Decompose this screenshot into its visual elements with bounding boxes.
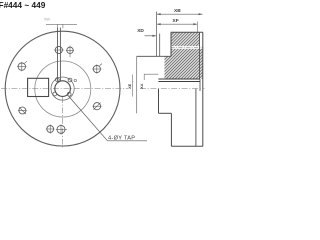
boss left face lower: [158, 89, 160, 114]
bolt hole B: [66, 46, 74, 57]
XF dimension line: [157, 23, 198, 25]
tap hole SW: [53, 92, 57, 96]
section hatch pilot block: [200, 47, 203, 79]
XD leader with arrow: [145, 35, 157, 37]
bolt hole D: [17, 61, 27, 71]
bore dimension line (vertical, short): [131, 75, 133, 97]
disc left face lower: [170, 113, 172, 146]
small mark near hub: [74, 79, 76, 81]
svg-text:XA: XA: [139, 83, 144, 89]
boss dimension line (vertical, long): [136, 56, 138, 113]
keyseat line: [158, 81, 200, 83]
svg-text:4-ØY TAP: 4-ØY TAP: [108, 136, 135, 142]
boss top face: [137, 55, 171, 57]
small hole G: [56, 124, 67, 134]
right face: [202, 32, 204, 146]
disc bottom face: [171, 145, 202, 147]
horizontal centerline: [1, 88, 128, 90]
keyway slot lines: [57, 28, 59, 82]
XD boss-face extension line: [159, 34, 161, 57]
section hatch boss block: [165, 56, 172, 79]
PCD dash-dot line: [171, 47, 203, 49]
hub outer circle: [51, 77, 74, 100]
PCD band in section: [171, 46, 203, 49]
tap hole NW: [55, 78, 59, 82]
svg-text:XD: XD: [137, 28, 144, 34]
bore circle: [55, 81, 71, 97]
outer flange circle: [5, 31, 120, 146]
svg-text:XF: XF: [173, 18, 179, 24]
bore top wall: [158, 78, 200, 80]
vertical centerline: [62, 97, 64, 149]
tap hole NE: [68, 78, 72, 82]
svg-text:XB: XB: [174, 8, 181, 14]
XB dimension line: [157, 13, 203, 15]
left key rectangle: [28, 78, 49, 96]
hub reference corner line: [144, 74, 158, 80]
boss step face: [159, 112, 172, 114]
svg-text:F#444 ~ 449: F#444 ~ 449: [0, 0, 46, 10]
bolt hole A: [54, 46, 64, 53]
bolt hole H: [92, 103, 101, 110]
bolt hole E: [18, 107, 27, 114]
svg-text:XE: XE: [127, 83, 132, 89]
small hole F: [46, 125, 55, 134]
tap hole SE: [67, 92, 71, 96]
section hatch main block: [171, 32, 200, 78]
pilot inner edge: [199, 79, 201, 91]
main centerline of side view: [140, 88, 205, 90]
hatch right edge: [199, 32, 201, 79]
inner boss circle: [35, 61, 91, 117]
XF right extension line: [196, 22, 198, 33]
bolt hole C: [92, 64, 102, 74]
leader line to tap note: [68, 96, 147, 141]
disc right face lower: [195, 89, 197, 147]
disc left face upper: [170, 32, 172, 56]
slot width dimension line: [46, 23, 77, 25]
svg-text:XW: XW: [44, 18, 50, 22]
disc top face: [171, 31, 203, 33]
XB left extension line: [156, 12, 158, 57]
